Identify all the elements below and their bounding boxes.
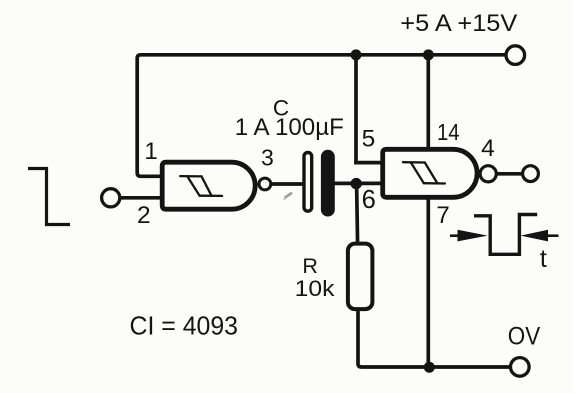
svg-text:4: 4 [481,135,495,162]
svg-text:OV: OV [508,323,541,351]
svg-text:7: 7 [436,202,449,229]
svg-text:6: 6 [362,186,376,214]
svg-text:2: 2 [137,202,151,229]
svg-text:+5 A +15V: +5 A +15V [400,10,518,37]
svg-text:5: 5 [362,126,376,153]
svg-text:t: t [540,245,547,273]
svg-text:10k: 10k [295,276,336,301]
svg-text:CI = 4093: CI = 4093 [130,313,239,341]
svg-text:3: 3 [261,144,274,170]
svg-text:1 A 100µF: 1 A 100µF [235,114,344,141]
svg-text:14: 14 [437,119,460,145]
svg-text:R: R [302,254,318,278]
svg-text:1: 1 [144,138,157,165]
